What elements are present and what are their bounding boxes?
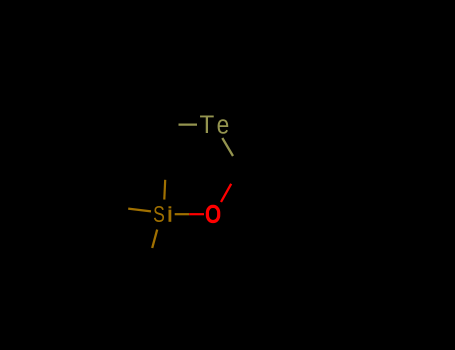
atom Si (silicon label), letter i dot: [169, 206, 172, 208]
bond CH3-Te (methyl to tellurium, visible olive half): [179, 123, 198, 125]
svg-text:T: T: [200, 112, 215, 140]
svg-text:S: S: [153, 202, 165, 228]
bond Si-CH3 down-left (visible gold half): [152, 230, 157, 248]
atom Si (silicon label), letter i stem: [169, 210, 172, 222]
bond Si-O oxygen half (red): [189, 213, 204, 215]
atom O (oxygen label): [207, 206, 218, 221]
svg-text:e: e: [217, 111, 230, 140]
bond Si-CH3 up (visible gold half): [163, 180, 166, 200]
bond Si-O silicon half (gold): [175, 213, 190, 215]
bond Te-C (tellurium to central carbon, visible olive half): [222, 138, 233, 156]
bond C-O (central carbon to oxygen, visible red half): [221, 184, 231, 202]
bond Si-CH3 left (visible gold half): [128, 209, 151, 212]
